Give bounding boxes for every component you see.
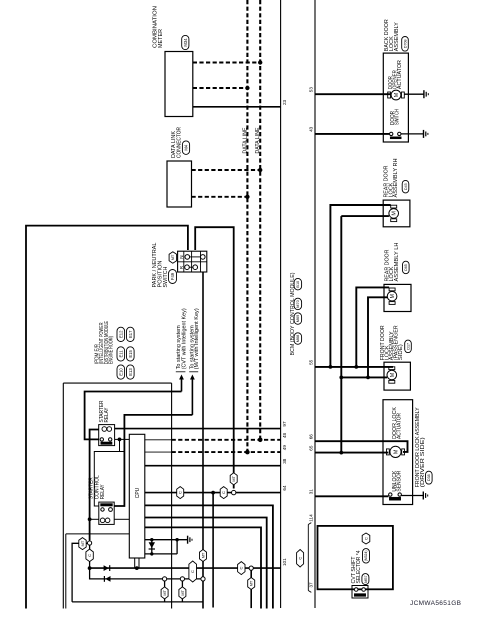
junction on data line 1 at meter CAN-L	[245, 86, 249, 90]
wire: control relay link upper	[94, 451, 124, 453]
option hex C inside selector	[362, 533, 370, 544]
connector oval E10	[117, 365, 125, 379]
svg-text:65: 65	[309, 445, 314, 451]
wire: MT drop right	[250, 570, 252, 608]
junction on data line 2 at DLC CAN-H	[258, 168, 262, 172]
junction CPU stub	[135, 566, 139, 570]
unlock sensor contacts	[389, 493, 392, 496]
svg-text:METER: METER	[158, 29, 164, 48]
connector oval E17	[127, 327, 135, 341]
wire: MT branch left	[72, 543, 87, 602]
svg-text:ACTUATOR: ACTUATOR	[397, 60, 403, 89]
svg-text:MT: MT	[249, 580, 254, 586]
combination meter M34 box	[165, 52, 193, 117]
svg-text:31: 31	[309, 489, 314, 495]
ground: back door actuator	[423, 90, 425, 98]
svg-text:M70: M70	[296, 300, 300, 307]
junction lock bus at RH	[329, 365, 333, 369]
wire: rear LH lead 1	[356, 287, 389, 367]
svg-text:M68: M68	[296, 335, 300, 342]
wire: BCM pin 66 to driver actuator	[315, 441, 408, 452]
junction row1 start	[88, 566, 92, 570]
wire: BCM pin 65 to driver actuator	[315, 452, 388, 454]
joint circle C on PNP wire	[201, 577, 205, 581]
junction on pin64 wire	[211, 491, 215, 495]
svg-text:E11: E11	[118, 350, 123, 358]
wire: control relay coil left	[90, 518, 99, 520]
svg-text:C: C	[190, 570, 195, 573]
BCM left edge	[280, 0, 282, 608]
junction diode bottom	[150, 552, 153, 555]
svg-text:MT: MT	[231, 475, 236, 481]
junction: coil wire at control relay tap	[88, 517, 92, 521]
wire: PNP pin N up-left-down (left loop)	[26, 226, 188, 609]
wire: combination meter CAN-H (dashed) to data line 2	[193, 62, 260, 64]
diode on row1	[104, 565, 109, 571]
svg-text:ASSEMBLY LH: ASSEMBLY LH	[394, 242, 400, 281]
BCM connector oval M69	[294, 313, 302, 325]
svg-text:DATA LINE: DATA LINE	[243, 127, 249, 154]
BCM connector oval M68	[294, 333, 302, 345]
svg-text:C: C	[178, 491, 183, 494]
svg-text:SIDE): SIDE)	[398, 344, 404, 360]
wire: rear RH lead 2 drop	[340, 216, 342, 453]
svg-text:114: 114	[309, 514, 314, 522]
wire: PNP pin to MT merge (right loop)	[195, 227, 234, 488]
option hex C below split	[86, 549, 93, 562]
motor: front door passenger	[387, 370, 397, 380]
diode D on vertical	[149, 542, 155, 548]
svg-text:C: C	[221, 491, 226, 494]
wire: MT drop from circle B	[181, 581, 183, 602]
data link connector M4 box	[167, 161, 192, 207]
wire: rear LH lead 2	[368, 297, 387, 377]
svg-text:(DRIVER SIDE): (DRIVER SIDE)	[420, 437, 426, 487]
svg-text:64: 64	[282, 485, 287, 491]
svg-text:RELAY: RELAY	[100, 484, 106, 499]
option hex C on row1 right	[238, 562, 245, 575]
svg-text:C: C	[239, 567, 244, 570]
wire: CPU row to bottom left step 3	[145, 527, 261, 608]
rear door LH box	[384, 284, 411, 311]
wire: unlock bus	[341, 376, 387, 378]
wire: diode branch vertical	[151, 540, 153, 554]
svg-text:97: 97	[282, 421, 287, 427]
svg-text:C: C	[87, 554, 92, 557]
svg-text:M57: M57	[364, 575, 368, 582]
svg-text:M69: M69	[296, 315, 300, 322]
svg-text:SWITCH: SWITCH	[394, 109, 400, 125]
wire: CPU row 553	[145, 553, 177, 555]
IPDM E/R box	[63, 382, 171, 384]
svg-text:37: 37	[309, 582, 314, 588]
svg-text:E10: E10	[118, 368, 123, 376]
svg-text:M34: M34	[183, 38, 188, 47]
starter relay box	[99, 425, 115, 446]
wire: rear RH lead 2	[341, 215, 389, 217]
junction data line 1 end	[245, 450, 250, 455]
option hex C on bracket	[297, 550, 304, 568]
svg-text:53: 53	[309, 87, 314, 93]
joint circle A on row2	[163, 577, 167, 581]
wire: CPU row to bottom left step 1	[145, 505, 273, 608]
wire: contact down to control relay	[94, 439, 119, 506]
wire: unlock sensor to ground	[401, 495, 423, 497]
joint circle at split	[88, 541, 92, 545]
motor: front door driver	[390, 446, 401, 457]
CVT shift selector box	[318, 526, 393, 589]
junction unlock bus at RH drop	[339, 376, 343, 380]
connector oval E13	[127, 365, 135, 379]
connector oval F49	[169, 270, 177, 284]
svg-text:49: 49	[282, 445, 287, 451]
ground symbol at CPU	[187, 536, 189, 544]
PNP contact N row	[185, 255, 190, 260]
svg-text:CONNECTOR: CONNECTOR	[177, 127, 183, 158]
svg-text:R: R	[179, 265, 184, 269]
wire: BCM pin 55 lock bus	[315, 366, 393, 368]
svg-text:E13: E13	[128, 368, 133, 376]
wire: CPU CAN-H dashed to BCM pin 48	[145, 439, 172, 441]
svg-text:ACTUATOR: ACTUATOR	[397, 413, 403, 439]
svg-text:SELECTOR *4: SELECTOR *4	[356, 550, 362, 583]
svg-text:D65: D65	[404, 264, 408, 271]
svg-text:ASSEMBLY: ASSEMBLY	[394, 22, 400, 52]
svg-text:D17: D17	[406, 343, 410, 350]
wire: combination meter CAN-L (dashed) to data line 1	[193, 87, 248, 89]
option hex C large on row1	[189, 561, 197, 582]
junction at starter relay contact	[118, 438, 122, 442]
wire: rear RH lead 1	[330, 205, 390, 367]
svg-text:MT: MT	[80, 540, 85, 546]
wire: DLC CAN-L (dashed) to data line 1	[192, 196, 248, 198]
svg-text:(M324): (M324)	[364, 551, 368, 562]
wire: control relay coil right to CPU	[114, 518, 129, 520]
svg-text:55: 55	[309, 359, 314, 365]
front door passenger box	[384, 362, 410, 390]
wire: door switch to ground	[401, 133, 424, 135]
BCM connector oval B10	[294, 278, 302, 290]
MT bus bottom row	[72, 601, 203, 603]
back door switch contacts	[390, 132, 393, 135]
wire: CPU row to bottom left step 2	[145, 518, 267, 609]
joint circle B on row2	[180, 577, 184, 581]
data line 1 (dashed vertical)	[246, 0, 248, 452]
wire: PNP output down	[202, 272, 204, 609]
CVT selector switch connector	[352, 586, 368, 599]
wire: starter relay contact to CVT arrow	[85, 392, 182, 440]
option hex MT on right loop wire	[230, 473, 237, 485]
starter relay contacts	[100, 438, 103, 441]
joint circle MT/C merge	[232, 490, 236, 494]
svg-text:RELAY: RELAY	[104, 407, 110, 422]
svg-text:23: 23	[282, 99, 287, 105]
PNP contact R row	[185, 265, 190, 270]
svg-text:38: 38	[282, 458, 287, 464]
joint circle on row1 right	[249, 566, 253, 570]
wire: starter relay coil right to BCM pin 97	[115, 428, 281, 430]
park/neutral position switch body	[178, 251, 207, 272]
svg-text:MT: MT	[170, 254, 175, 260]
wire: MT arrow down to control relay	[114, 415, 192, 506]
svg-text:101: 101	[282, 558, 287, 566]
starter control relay box	[99, 502, 114, 524]
front door driver box	[383, 400, 413, 505]
wire: BCM pin 31 to unlock sensor	[315, 495, 389, 497]
data line 2 (dashed vertical)	[259, 0, 261, 440]
svg-text:E12: E12	[118, 330, 123, 338]
svg-text:M: M	[390, 293, 396, 298]
option hex MT below circle A	[161, 587, 168, 599]
option hex MT below right circle	[248, 578, 255, 590]
junction unlock bus at LH	[366, 376, 370, 380]
wire: CPU to BCM pin 38	[145, 465, 281, 467]
wire: actuator to ground	[404, 93, 424, 95]
svg-text:43: 43	[309, 126, 314, 132]
svg-text:N: N	[179, 255, 184, 258]
wire: combination meter to BCM pin 23	[193, 106, 281, 108]
wire: MT/C split feeder	[89, 540, 91, 568]
wire: row2 lower	[90, 568, 203, 579]
motor: rear door RH	[389, 209, 399, 219]
rear door RH box	[383, 200, 410, 227]
svg-text:D38: D38	[427, 474, 431, 481]
diagram code text	[410, 600, 461, 607]
option hex MT below circle B	[179, 587, 186, 599]
junction on data line 1 at DLC CAN-L	[245, 195, 249, 199]
back door lock assembly box	[383, 53, 408, 142]
ground: unlock sensor	[422, 492, 424, 500]
wire: CPU to BCM pin 64 (option merge)	[145, 492, 281, 494]
svg-text:C: C	[363, 537, 368, 540]
connector oval E15	[127, 347, 135, 361]
junction pin65/unlock bus	[339, 451, 343, 455]
junction on data line 2 at meter CAN-H	[258, 60, 262, 64]
svg-text:(CVT with Intelligent Key): (CVT with Intelligent Key)	[181, 308, 187, 369]
svg-text:ASSEMBLY RH: ASSEMBLY RH	[393, 158, 399, 197]
wire: BCM pin 43 to back door switch	[315, 133, 389, 135]
connector oval E12	[117, 327, 125, 341]
starter relay coil	[102, 427, 107, 432]
svg-text:(M/T with Intelligent Key): (M/T with Intelligent Key)	[194, 308, 200, 369]
svg-text:M: M	[390, 372, 396, 377]
svg-text:E15: E15	[128, 350, 133, 358]
option hex MT on PNP output wire	[200, 550, 207, 562]
option hex C second on pin64 wire	[220, 487, 227, 499]
starter control relay coil	[100, 518, 105, 523]
svg-text:ENGINE ROOM): ENGINE ROOM)	[109, 336, 115, 364]
svg-text:E17: E17	[128, 330, 133, 338]
CPU box	[129, 434, 145, 558]
svg-text:MT: MT	[180, 589, 185, 595]
wire: CPU bottom stubs	[134, 558, 136, 568]
wire: CPU CAN-L dashed to BCM pin 49	[145, 451, 172, 453]
BCM right edge	[314, 0, 316, 608]
option hex MT at PNP switch	[169, 252, 177, 263]
wire: row1 to BCM pin 101	[90, 567, 281, 569]
BCM connector oval M70	[294, 298, 302, 310]
option hex C on pin64 wire	[177, 487, 184, 499]
junction ground row a	[150, 538, 153, 541]
svg-text:MT: MT	[200, 552, 205, 558]
ground: back door switch	[423, 130, 425, 138]
motor: back door opener actuator	[391, 90, 401, 100]
svg-text:M: M	[394, 449, 400, 454]
svg-text:M4: M4	[184, 144, 189, 150]
svg-text:M: M	[392, 211, 398, 216]
arrow: to starting system MT	[191, 379, 193, 415]
wire: MT drop from circle A	[164, 581, 166, 602]
svg-text:B10: B10	[296, 281, 300, 288]
wire: starter relay contact right	[115, 438, 130, 440]
junction lock bus at LH	[354, 365, 358, 369]
motor: rear door LH	[387, 291, 397, 301]
wire: vertical 177 join	[176, 540, 178, 554]
junction ground row b	[175, 538, 178, 541]
svg-text:C: C	[298, 557, 303, 560]
wire: BCM pin 53 to back door actuator	[315, 93, 392, 95]
svg-text:D45: D45	[404, 183, 408, 190]
diode on row2	[105, 576, 110, 582]
wire: starter relay coil left	[90, 430, 99, 541]
starter control relay contacts	[101, 504, 113, 506]
svg-text:MT: MT	[162, 589, 167, 595]
wire: CPU pin row to bottom left corner	[66, 533, 130, 535]
svg-text:M: M	[394, 92, 400, 97]
junction data line 2 end	[258, 438, 263, 443]
svg-text:D708: D708	[403, 40, 407, 49]
svg-text:SENSOR: SENSOR	[397, 470, 403, 491]
wire: CPU ground row	[145, 539, 188, 541]
wire: branch down from pin64 wire	[212, 493, 214, 608]
wire: DLC CAN-H (dashed) to data line 2	[192, 169, 261, 171]
connector oval E11	[117, 347, 125, 361]
svg-text:F49: F49	[170, 272, 175, 280]
svg-text:66: 66	[309, 434, 314, 440]
option hex MT on left branch	[79, 538, 86, 550]
svg-text:48: 48	[282, 432, 287, 438]
arrow: to starting system CVT	[181, 379, 183, 392]
svg-text:DATA LINE: DATA LINE	[255, 127, 261, 154]
svg-text:CPU: CPU	[135, 487, 141, 498]
CVT option bracket	[307, 525, 309, 591]
